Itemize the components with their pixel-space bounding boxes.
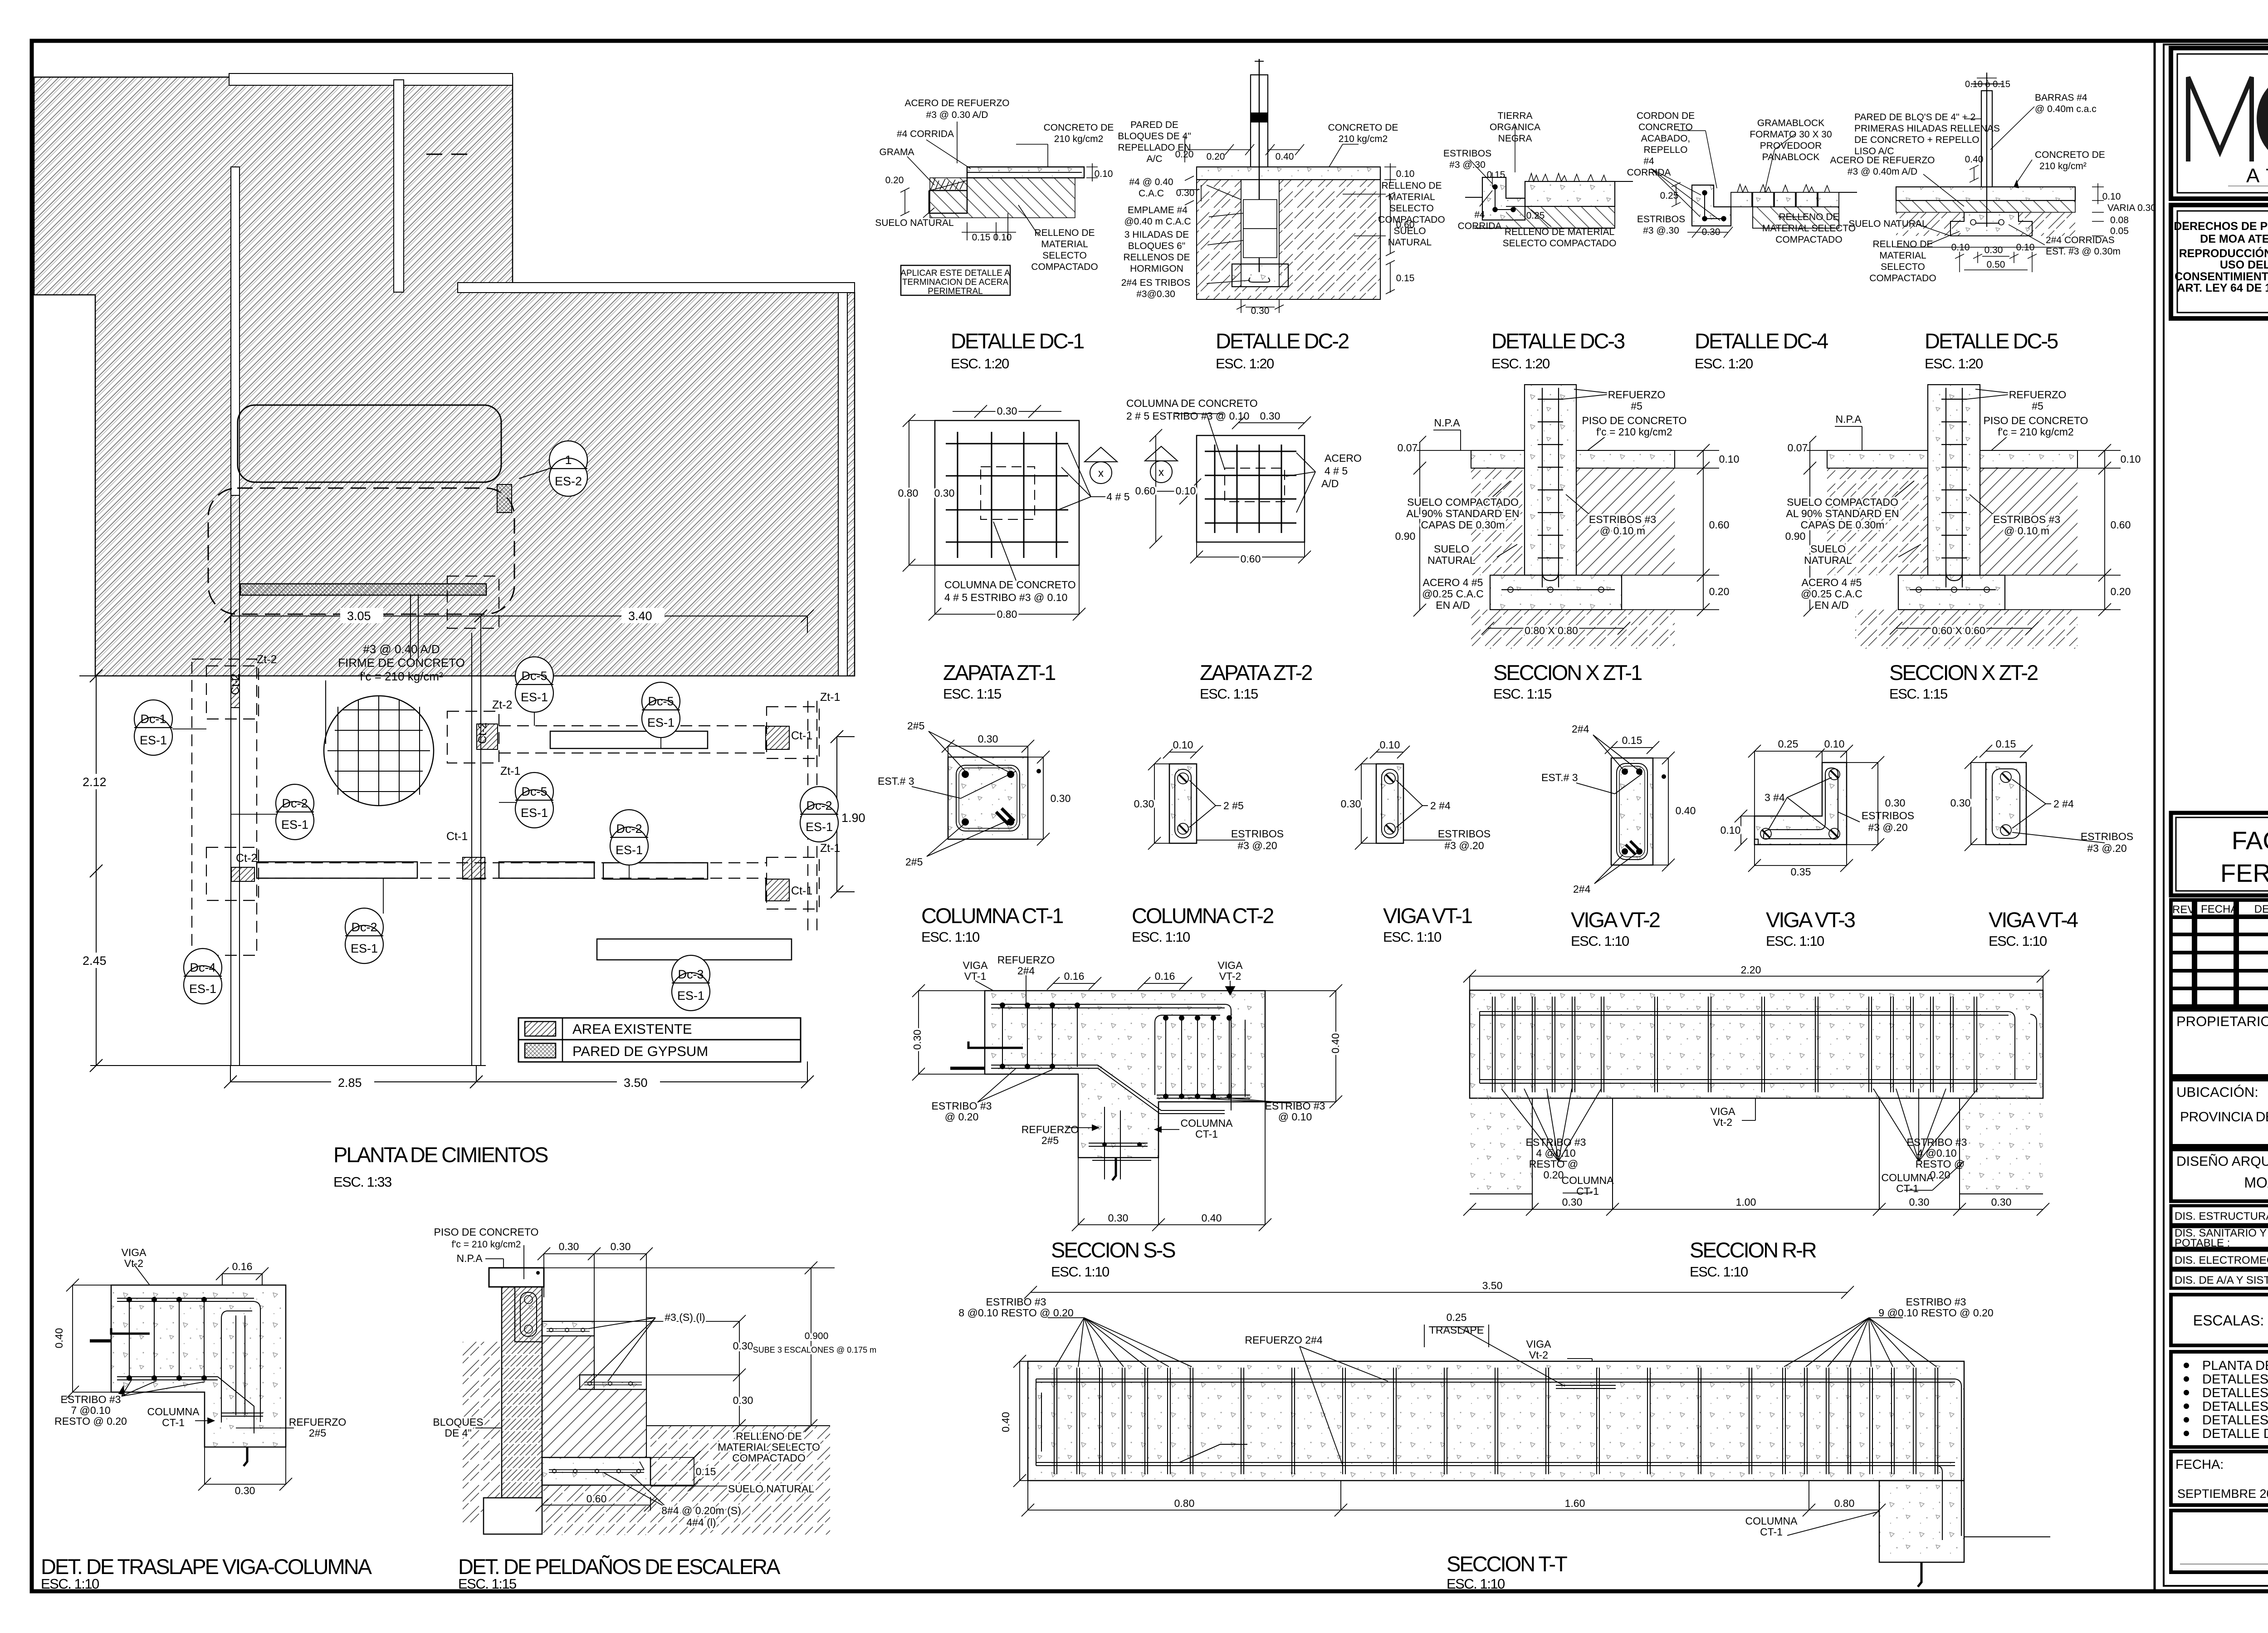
svg-text:4 # 5: 4 # 5 <box>1106 491 1129 503</box>
svg-text:RELLENO DE: RELLENO DE <box>736 1430 802 1442</box>
svg-text:0.15: 0.15 <box>1487 170 1505 180</box>
svg-text:3.50: 3.50 <box>1482 1280 1503 1291</box>
svg-text:FECHA:: FECHA: <box>2175 1457 2224 1472</box>
svg-text:DETALLE DC-1: DETALLE DC-1 <box>951 329 1084 353</box>
svg-text:#3 @.20: #3 @.20 <box>2087 842 2126 854</box>
svg-text:0.25: 0.25 <box>1447 1311 1467 1323</box>
svg-text:REPELLO: REPELLO <box>1644 145 1688 155</box>
svg-text:DIS. ELECTROMECÁNICO :: DIS. ELECTROMECÁNICO : <box>2175 1254 2268 1266</box>
svg-text:DETALLES DE VIGAS: DETALLES DE VIGAS <box>2202 1399 2268 1414</box>
svg-text:0.10: 0.10 <box>1719 453 1740 465</box>
svg-text:ESC. 1:10: ESC. 1:10 <box>921 929 980 945</box>
svg-text:CT-1: CT-1 <box>1760 1526 1783 1538</box>
svg-text:ESC. 1:20: ESC. 1:20 <box>1925 356 1983 372</box>
svg-text:0.80: 0.80 <box>997 608 1017 620</box>
svg-text:ESTRIBO #3: ESTRIBO #3 <box>61 1393 121 1405</box>
svg-text:0.60: 0.60 <box>1709 519 1730 531</box>
svg-text:NATURAL: NATURAL <box>1427 554 1476 566</box>
svg-text:0.30: 0.30 <box>235 1485 255 1496</box>
svg-text:0.30: 0.30 <box>997 405 1017 417</box>
svg-text:210 kg/cm2: 210 kg/cm2 <box>1339 134 1388 144</box>
svg-text:0.08: 0.08 <box>2110 215 2129 225</box>
svg-text:#3 @.20: #3 @.20 <box>1444 840 1484 851</box>
svg-text:0.40: 0.40 <box>1000 1412 1012 1433</box>
svg-text:BLOQUES: BLOQUES <box>433 1416 483 1428</box>
svg-text:RESTO @: RESTO @ <box>1916 1158 1965 1170</box>
svg-text:CONCRETO: CONCRETO <box>1638 122 1693 132</box>
svg-text:DET. DE PELDAÑOS DE ESCALERA: DET. DE PELDAÑOS DE ESCALERA <box>458 1555 781 1579</box>
svg-text:2#5: 2#5 <box>905 856 923 868</box>
svg-text:ESC. 1:15: ESC. 1:15 <box>943 686 1001 702</box>
svg-text:ESC. 1:10: ESC. 1:10 <box>1571 933 1629 949</box>
svg-text:PANABLOCK: PANABLOCK <box>1762 152 1820 162</box>
svg-text:0.60: 0.60 <box>2111 519 2131 531</box>
svg-text:0.30: 0.30 <box>1260 410 1281 422</box>
svg-text:ACABADO,: ACABADO, <box>1641 133 1691 144</box>
svg-text:0.20: 0.20 <box>1709 586 1730 597</box>
svg-text:Zt-2: Zt-2 <box>492 699 512 711</box>
svg-text:0.80: 0.80 <box>898 487 919 499</box>
svg-text:FIRME DE CONCRETO: FIRME DE CONCRETO <box>338 656 465 670</box>
svg-text:COMPACTADO: COMPACTADO <box>1869 273 1936 284</box>
svg-text:0.20: 0.20 <box>1175 149 1194 160</box>
svg-text:ESTRIBOS: ESTRIBOS <box>1637 214 1685 225</box>
svg-text:0.80 X 0.80: 0.80 X 0.80 <box>1525 625 1578 636</box>
svg-text:PLANTA DE CIMIENTOS: PLANTA DE CIMIENTOS <box>2202 1359 2268 1373</box>
svg-text:DE MOA ATELIER. PROHIBIDA LA: DE MOA ATELIER. PROHIBIDA LA <box>2200 233 2268 245</box>
svg-text:3.05: 3.05 <box>347 609 371 623</box>
svg-text:UBICACIÓN:: UBICACIÓN: <box>2176 1084 2258 1100</box>
svg-text:CONSENTIMIENTO ESCRITO DE CONS: CONSENTIMIENTO ESCRITO DE CONSTRU <box>2175 270 2268 283</box>
svg-text:COLUMNA DE CONCRETO: COLUMNA DE CONCRETO <box>944 579 1076 591</box>
svg-text:f'c = 210 kg/cm2: f'c = 210 kg/cm2 <box>1998 426 2073 438</box>
svg-text:DETALLES DE ESCALERA: DETALLES DE ESCALERA <box>2202 1413 2268 1428</box>
svg-text:Ct-2: Ct-2 <box>236 852 257 865</box>
svg-text:SELECTO COMPACTADO: SELECTO COMPACTADO <box>1503 238 1617 249</box>
svg-text:PROVEDOOR: PROVEDOOR <box>1760 141 1822 151</box>
svg-text:FERBREGO: FERBREGO <box>2220 859 2268 887</box>
svg-text:7 @0.10: 7 @0.10 <box>71 1404 110 1416</box>
svg-text:3.40: 3.40 <box>628 609 652 623</box>
svg-text:8 @0.10 RESTO @ 0.20: 8 @0.10 RESTO @ 0.20 <box>958 1307 1073 1319</box>
svg-text:SELECTO: SELECTO <box>1042 250 1087 261</box>
svg-text:3 HILADAS DE: 3 HILADAS DE <box>1124 230 1189 240</box>
svg-text:0.80: 0.80 <box>1174 1497 1195 1509</box>
svg-text:0.40: 0.40 <box>1330 1033 1341 1054</box>
svg-text:ESC. 1:15: ESC. 1:15 <box>458 1576 516 1592</box>
svg-text:SELECTO: SELECTO <box>1389 203 1434 214</box>
svg-text:0.16: 0.16 <box>1064 970 1085 982</box>
svg-text:CT-1: CT-1 <box>1896 1183 1919 1194</box>
svg-text:0.10: 0.10 <box>1380 739 1400 751</box>
svg-text:@ 0.40m c.a.c: @ 0.40m c.a.c <box>2035 104 2097 114</box>
svg-text:0.10 ò 0.15: 0.10 ò 0.15 <box>1965 79 2010 89</box>
svg-text:0.16: 0.16 <box>1155 970 1175 982</box>
svg-text:CAPAS DE 0.30m: CAPAS DE 0.30m <box>1421 519 1505 531</box>
svg-text:ESC. 1:20: ESC. 1:20 <box>1695 356 1753 372</box>
svg-text:ESC. 1:20: ESC. 1:20 <box>1216 356 1274 372</box>
svg-text:ES-1: ES-1 <box>281 818 308 831</box>
svg-text:REFUERZO: REFUERZO <box>2009 389 2067 401</box>
svg-text:#3 (S) (l): #3 (S) (l) <box>665 1311 705 1323</box>
svg-text:Dc-4: Dc-4 <box>190 961 215 974</box>
svg-text:0.10: 0.10 <box>1176 485 1196 497</box>
svg-text:0.10: 0.10 <box>1095 169 1113 179</box>
svg-text:ACERO 4 #5: ACERO 4 #5 <box>1423 577 1483 588</box>
svg-text:REFUERZO: REFUERZO <box>1022 1124 1079 1135</box>
svg-text:ESC. 1:15: ESC. 1:15 <box>1493 686 1551 702</box>
svg-text:PARED DE: PARED DE <box>1130 120 1178 130</box>
svg-text:SUELO COMPACTADO: SUELO COMPACTADO <box>1787 496 1898 508</box>
svg-text:RELLENOS DE: RELLENOS DE <box>1123 252 1190 263</box>
svg-text:ESC. 1:10: ESC. 1:10 <box>1383 929 1442 945</box>
svg-text:ESC. 1:10: ESC. 1:10 <box>1690 1264 1748 1280</box>
svg-text:0.30: 0.30 <box>1108 1212 1129 1224</box>
svg-text:#4: #4 <box>1474 210 1485 220</box>
svg-text:2.45: 2.45 <box>83 954 107 968</box>
svg-text:MOA ATELIER: MOA ATELIER <box>2244 1174 2268 1191</box>
svg-text:ES-1: ES-1 <box>521 690 548 704</box>
svg-text:DETALLE DC-2: DETALLE DC-2 <box>1216 329 1349 353</box>
svg-text:USO DEL CONTENIDO SIN: USO DEL CONTENIDO SIN <box>2220 259 2268 271</box>
svg-text:0.30: 0.30 <box>1134 798 1154 810</box>
svg-text:0.10: 0.10 <box>2016 242 2035 253</box>
svg-text:REFUERZO 2#4: REFUERZO 2#4 <box>1245 1334 1322 1346</box>
svg-text:VARIA 0.30: VARIA 0.30 <box>2107 203 2156 213</box>
svg-text:Ct-2: Ct-2 <box>229 674 242 695</box>
svg-text:0.10: 0.10 <box>1173 739 1193 751</box>
svg-text:DETALLE DE MACETERO: DETALLE DE MACETERO <box>2202 1427 2268 1441</box>
svg-text:SECCION X ZT-2: SECCION X ZT-2 <box>1889 660 2038 684</box>
svg-text:2 #4: 2 #4 <box>2053 798 2074 810</box>
svg-text:PROVINCIA DE PANAMÁ , PANAMÁ.: PROVINCIA DE PANAMÁ , PANAMÁ. <box>2180 1110 2268 1125</box>
svg-text:SUELO COMPACTADO: SUELO COMPACTADO <box>1407 496 1519 508</box>
svg-text:f'c = 210 kg/cm2: f'c = 210 kg/cm2 <box>1596 426 1672 438</box>
svg-text:DESCRIPCION: DESCRIPCION <box>2254 903 2268 915</box>
svg-text:CT-1: CT-1 <box>162 1417 185 1428</box>
svg-text:ESTRIBO #3: ESTRIBO #3 <box>932 1100 992 1112</box>
svg-text:ACERO: ACERO <box>1325 452 1362 464</box>
svg-text:0.60: 0.60 <box>1396 220 1415 230</box>
svg-text:3.50: 3.50 <box>624 1076 648 1090</box>
svg-text:2#5: 2#5 <box>907 720 924 732</box>
svg-text:VT-2: VT-2 <box>1219 970 1242 982</box>
svg-text:#3 @.20: #3 @.20 <box>1237 840 1277 851</box>
svg-text:@ 0.20: @ 0.20 <box>945 1111 979 1123</box>
svg-text:0.16: 0.16 <box>232 1261 253 1272</box>
svg-text:GRAMABLOCK: GRAMABLOCK <box>1757 118 1824 128</box>
svg-text:COMPACTADO: COMPACTADO <box>1031 262 1098 272</box>
svg-text:0.35: 0.35 <box>1791 866 1811 878</box>
svg-text:AREA EXISTENTE: AREA EXISTENTE <box>572 1021 692 1037</box>
svg-text:3 #4: 3 #4 <box>1765 792 1785 803</box>
svg-text:CONCRETO DE: CONCRETO DE <box>1328 122 1398 133</box>
svg-text:VIGA: VIGA <box>1526 1338 1552 1350</box>
svg-text:ESTRIBO #3: ESTRIBO #3 <box>1907 1136 1967 1148</box>
svg-text:0.90: 0.90 <box>1785 530 1806 542</box>
svg-text:Vt-2: Vt-2 <box>124 1257 143 1269</box>
svg-text:2#4: 2#4 <box>1573 883 1591 895</box>
svg-text:DETALLE DC-4: DETALLE DC-4 <box>1695 329 1828 353</box>
svg-text:VIGA: VIGA <box>1711 1105 1736 1117</box>
svg-text:DETALLES DE COLUMNAS: DETALLES DE COLUMNAS <box>2202 1386 2268 1400</box>
svg-text:1.00: 1.00 <box>1736 1196 1756 1208</box>
svg-text:EST.# 3: EST.# 3 <box>1541 772 1578 783</box>
svg-text:Zt-2: Zt-2 <box>257 653 277 666</box>
svg-text:PISO DE CONCRETO: PISO DE CONCRETO <box>1984 415 2088 426</box>
svg-text:SUELO NATURAL: SUELO NATURAL <box>875 218 954 228</box>
svg-text:SECCION R-R: SECCION R-R <box>1690 1238 1816 1262</box>
svg-text:BARRAS #4: BARRAS #4 <box>2035 93 2087 103</box>
svg-text:Ct-1: Ct-1 <box>791 885 812 897</box>
svg-text:4 @0.10: 4 @0.10 <box>1536 1147 1575 1159</box>
svg-text:PISO DE CONCRETO: PISO DE CONCRETO <box>1582 415 1687 426</box>
svg-text:ESTRIBOS #3: ESTRIBOS #3 <box>1993 513 2060 525</box>
svg-text:COLUMNA: COLUMNA <box>147 1406 200 1418</box>
svg-text:Dc-1: Dc-1 <box>140 712 166 726</box>
svg-text:SELECTO: SELECTO <box>1881 262 1925 272</box>
svg-text:REV.: REV. <box>2172 904 2197 916</box>
svg-text:2#4: 2#4 <box>1017 965 1035 977</box>
svg-text:Vt-2: Vt-2 <box>1713 1116 1732 1128</box>
svg-text:ESTRIBOS: ESTRIBOS <box>1231 828 1284 840</box>
svg-text:0.40: 0.40 <box>1276 152 1294 162</box>
svg-text:0.15: 0.15 <box>1996 738 2016 750</box>
svg-text:f'c = 210 kg/cm2: f'c = 210 kg/cm2 <box>452 1239 521 1250</box>
svg-text:0.10: 0.10 <box>1824 738 1845 750</box>
svg-text:0.30: 0.30 <box>1176 188 1195 198</box>
svg-text:0.30: 0.30 <box>733 1394 753 1406</box>
svg-text:#4 CORRIDA: #4 CORRIDA <box>897 129 954 139</box>
svg-text:N.P.A: N.P.A <box>1434 417 1460 429</box>
svg-text:SUELO: SUELO <box>1434 543 1469 555</box>
svg-text:ACERO DE REFUERZO: ACERO DE REFUERZO <box>904 98 1009 108</box>
svg-text:2 #5: 2 #5 <box>1223 800 1244 812</box>
svg-text:CAPAS DE 0.30m: CAPAS DE 0.30m <box>1801 519 1885 531</box>
svg-text:BLOQUES 6": BLOQUES 6" <box>1128 241 1186 251</box>
svg-text:0.90: 0.90 <box>1395 530 1416 542</box>
svg-text:0.20: 0.20 <box>1544 1169 1564 1181</box>
svg-text:0.40: 0.40 <box>1202 1212 1222 1224</box>
svg-text:ESTRIBO #3: ESTRIBO #3 <box>1906 1296 1966 1308</box>
svg-text:4#4 (l): 4#4 (l) <box>686 1516 716 1528</box>
svg-text:ESC. 1:10: ESC. 1:10 <box>1989 933 2047 949</box>
svg-text:DISEÑO ARQUITECTONICO:: DISEÑO ARQUITECTONICO: <box>2176 1154 2268 1169</box>
svg-text:EN A/D: EN A/D <box>1814 599 1848 611</box>
svg-text:x: x <box>1098 467 1104 479</box>
svg-text:9 @0.10 RESTO @ 0.20: 9 @0.10 RESTO @ 0.20 <box>1878 1307 1993 1319</box>
svg-text:2#5: 2#5 <box>309 1427 326 1439</box>
svg-text:COLUMNA CT-1: COLUMNA CT-1 <box>921 904 1063 928</box>
svg-text:ES-1: ES-1 <box>351 942 378 955</box>
svg-text:0.60 X 0.60: 0.60 X 0.60 <box>1932 625 1985 636</box>
svg-text:@0.25 C.A.C: @0.25 C.A.C <box>1801 588 1862 600</box>
svg-text:VT-1: VT-1 <box>964 970 987 982</box>
svg-text:DETALLES DE CIMIENTOS: DETALLES DE CIMIENTOS <box>2202 1372 2268 1387</box>
svg-text:VIGA: VIGA <box>122 1247 147 1258</box>
svg-text:PISO DE CONCRETO: PISO DE CONCRETO <box>434 1226 539 1238</box>
svg-text:N.P.A: N.P.A <box>456 1252 483 1264</box>
svg-text:f'c = 210 kg/cm²: f'c = 210 kg/cm² <box>360 670 443 683</box>
svg-text:2 # 5 ESTRIBO #3 @ 0.10: 2 # 5 ESTRIBO #3 @ 0.10 <box>1126 410 1249 422</box>
svg-text:ES-2: ES-2 <box>555 474 582 488</box>
svg-text:COLUMNA: COLUMNA <box>1745 1515 1798 1527</box>
svg-text:0.20: 0.20 <box>2111 586 2131 597</box>
svg-text:210 kg/cm2: 210 kg/cm2 <box>1054 134 1104 144</box>
svg-text:0.15: 0.15 <box>696 1466 716 1477</box>
svg-text:#4: #4 <box>1643 156 1654 166</box>
svg-text:0.10: 0.10 <box>1951 242 1970 253</box>
svg-text:N.P.A: N.P.A <box>1835 413 1862 425</box>
svg-text:0.10: 0.10 <box>993 232 1012 243</box>
svg-text:0.25: 0.25 <box>1526 210 1545 221</box>
svg-text:EST.# 3: EST.# 3 <box>878 775 914 787</box>
svg-text:2#4 CORRIDAS: 2#4 CORRIDAS <box>2046 235 2115 245</box>
svg-text:ESC. 1:10: ESC. 1:10 <box>1766 933 1824 949</box>
svg-text:SUELO NATURAL: SUELO NATURAL <box>1848 219 1927 229</box>
svg-text:REPRODUCCIÓN TOTAL O PARCIAL Y: REPRODUCCIÓN TOTAL O PARCIAL Y EL <box>2179 246 2268 260</box>
svg-text:ESTRIBO #3: ESTRIBO #3 <box>986 1296 1046 1308</box>
svg-text:DIS. ESTRUCTURAL :: DIS. ESTRUCTURAL : <box>2175 1210 2268 1222</box>
svg-text:RELLENO DE: RELLENO DE <box>1034 228 1095 238</box>
svg-text:0.60: 0.60 <box>587 1493 607 1505</box>
svg-text:2.12: 2.12 <box>83 775 107 789</box>
svg-text:0.80: 0.80 <box>1834 1497 1855 1509</box>
svg-text:CT-1: CT-1 <box>1576 1185 1599 1197</box>
svg-text:ACERO DE REFUERZO: ACERO DE REFUERZO <box>1830 155 1935 166</box>
svg-text:MATERIAL: MATERIAL <box>1041 239 1088 249</box>
svg-text:0.10: 0.10 <box>1721 824 1741 836</box>
svg-text:0.20: 0.20 <box>1207 152 1225 162</box>
svg-text:0.30: 0.30 <box>911 1030 923 1050</box>
svg-text:Zt-1: Zt-1 <box>820 842 840 855</box>
svg-text:RESTO @ 0.20: RESTO @ 0.20 <box>54 1415 127 1427</box>
svg-text:ESC. 1:33: ESC. 1:33 <box>333 1174 391 1190</box>
svg-text:0.15: 0.15 <box>1622 734 1642 746</box>
svg-text:SUBE 3 ESCALONES @ 0.175 m: SUBE 3 ESCALONES @ 0.175 m <box>753 1345 876 1354</box>
svg-text:COLUMNA CT-2: COLUMNA CT-2 <box>1132 904 1273 928</box>
svg-text:NATURAL: NATURAL <box>1804 554 1852 566</box>
svg-text:ESTRIBOS: ESTRIBOS <box>1438 828 1491 840</box>
svg-text:COLUMNA DE CONCRETO: COLUMNA DE CONCRETO <box>1126 397 1258 409</box>
svg-text:EN A/D: EN A/D <box>1436 599 1470 611</box>
svg-text:#5: #5 <box>1631 400 1642 412</box>
svg-text:ES-1: ES-1 <box>647 716 675 729</box>
svg-text:4 # 5 ESTRIBO #3 @ 0.10: 4 # 5 ESTRIBO #3 @ 0.10 <box>944 592 1067 603</box>
svg-text:TERMINACION DE ACERA: TERMINACION DE ACERA <box>902 278 1009 287</box>
svg-text:RELLENO DE: RELLENO DE <box>1779 212 1839 222</box>
svg-text:ES-1: ES-1 <box>677 989 704 1002</box>
svg-text:ZAPATA ZT-2: ZAPATA ZT-2 <box>1200 660 1312 684</box>
svg-text:PROPIETARIO:: PROPIETARIO: <box>2176 1013 2268 1029</box>
svg-text:COMPACTADO: COMPACTADO <box>1775 235 1842 245</box>
svg-text:APLICAR ESTE DETALLE A: APLICAR ESTE DETALLE A <box>900 269 1010 278</box>
svg-text:COLUMNA: COLUMNA <box>1180 1117 1233 1129</box>
svg-text:CONCRETO DE: CONCRETO DE <box>2035 150 2105 160</box>
svg-text:0.30: 0.30 <box>1051 792 1071 804</box>
svg-text:MATERIAL SELECTO: MATERIAL SELECTO <box>1762 223 1856 234</box>
svg-text:4 @0.10: 4 @0.10 <box>1917 1147 1956 1159</box>
svg-text:0.30: 0.30 <box>1702 227 1721 237</box>
svg-text:CORRIDA: CORRIDA <box>1458 221 1502 231</box>
svg-text:DIS. DE A/A Y SIST. ESP. :: DIS. DE A/A Y SIST. ESP. : <box>2175 1274 2268 1286</box>
svg-text:SECCION T-T: SECCION T-T <box>1447 1552 1567 1576</box>
svg-text:BLOQUES DE 4": BLOQUES DE 4" <box>1118 131 1191 142</box>
svg-text:GRAMA: GRAMA <box>879 147 914 157</box>
svg-text:0.30: 0.30 <box>1251 306 1270 316</box>
svg-text:0.30: 0.30 <box>1984 245 2003 255</box>
svg-text:2#4: 2#4 <box>1572 723 1589 735</box>
svg-text:0.900: 0.900 <box>805 1331 829 1341</box>
svg-text:ES-1: ES-1 <box>189 982 216 996</box>
svg-text:ES-1: ES-1 <box>140 733 167 747</box>
svg-text:ES-1: ES-1 <box>806 820 833 834</box>
svg-text:@ 0.10: @ 0.10 <box>1278 1111 1312 1123</box>
svg-text:TIERRA: TIERRA <box>1497 111 1532 121</box>
svg-text:CORDON DE: CORDON DE <box>1637 111 1695 121</box>
svg-text:0.30: 0.30 <box>1562 1196 1583 1208</box>
svg-text:0.50: 0.50 <box>1987 259 2005 270</box>
svg-text:#3 @ 0.40 A/D: #3 @ 0.40 A/D <box>363 642 440 656</box>
svg-text:ART. LEY 64 DE 10 DE OCTUBRE D: ART. LEY 64 DE 10 DE OCTUBRE DE 2012. <box>2177 282 2268 294</box>
svg-text:COLUMNA: COLUMNA <box>1561 1174 1614 1186</box>
svg-text:ESC. 1:10: ESC. 1:10 <box>1051 1264 1110 1280</box>
svg-text:0.10: 0.10 <box>2121 453 2141 465</box>
svg-text:DE CONCRETO + REPELLO: DE CONCRETO + REPELLO <box>1854 135 1980 145</box>
svg-text:ATELIER: ATELIER <box>2246 165 2268 187</box>
svg-text:#3 @ 0.30 A/D: #3 @ 0.30 A/D <box>926 110 988 120</box>
svg-text:1.60: 1.60 <box>1565 1497 1585 1509</box>
svg-text:0.10: 0.10 <box>2102 191 2121 202</box>
svg-text:ACERO 4 #5: ACERO 4 #5 <box>1802 577 1862 588</box>
svg-text:#4 @ 0.40: #4 @ 0.40 <box>1129 177 1173 187</box>
svg-text:SECCION X ZT-1: SECCION X ZT-1 <box>1493 660 1642 684</box>
svg-text:0.05: 0.05 <box>2110 226 2129 236</box>
svg-text:0.40: 0.40 <box>53 1328 65 1349</box>
svg-text:VIGA VT-3: VIGA VT-3 <box>1766 908 1855 932</box>
svg-text:EST. #3 @ 0.30m: EST. #3 @ 0.30m <box>2046 246 2121 257</box>
svg-text:A/D: A/D <box>1321 478 1339 489</box>
svg-text:COLUMNA: COLUMNA <box>1881 1172 1934 1183</box>
svg-text:Ct-2: Ct-2 <box>476 723 489 744</box>
svg-text:210 kg/cm²: 210 kg/cm² <box>2039 161 2087 171</box>
svg-text:#3 @.20: #3 @.20 <box>1868 821 1907 833</box>
svg-text:2.20: 2.20 <box>1741 964 1761 976</box>
svg-text:CT-1: CT-1 <box>1195 1128 1218 1140</box>
svg-text:0.30: 0.30 <box>1991 1196 2012 1208</box>
svg-text:ESTRIBOS: ESTRIBOS <box>1443 148 1491 159</box>
svg-text:#3 @.30: #3 @.30 <box>1643 225 1679 236</box>
svg-text:ESC. 1:15: ESC. 1:15 <box>1200 686 1258 702</box>
svg-text:@ 0.10 m: @ 0.10 m <box>1600 525 1645 537</box>
svg-text:VIGA: VIGA <box>963 959 988 971</box>
svg-text:0.15: 0.15 <box>972 232 991 243</box>
svg-text:ESC. 1:10: ESC. 1:10 <box>41 1576 99 1592</box>
svg-text:PARED DE GYPSUM: PARED DE GYPSUM <box>572 1043 708 1059</box>
svg-text:DETALLE DC-3: DETALLE DC-3 <box>1491 329 1625 353</box>
svg-text:2 #4: 2 #4 <box>1430 800 1451 812</box>
svg-text:VIGA: VIGA <box>1218 959 1243 971</box>
svg-text:Zt-1: Zt-1 <box>820 691 840 704</box>
svg-text:#3 @ 0.40m A/D: #3 @ 0.40m A/D <box>1848 166 1917 177</box>
svg-text:0.15: 0.15 <box>1396 273 1415 284</box>
svg-text:0.30: 0.30 <box>733 1340 753 1352</box>
svg-text:TRASLAPE: TRASLAPE <box>1429 1324 1484 1336</box>
svg-text:AL 90% STANDARD EN: AL 90% STANDARD EN <box>1406 508 1519 519</box>
svg-text:0.30: 0.30 <box>559 1241 579 1252</box>
svg-text:EMPLAME #4: EMPLAME #4 <box>1128 205 1188 215</box>
svg-text:PRIMERAS HILADAS RELLENAS: PRIMERAS HILADAS RELLENAS <box>1854 123 2000 134</box>
